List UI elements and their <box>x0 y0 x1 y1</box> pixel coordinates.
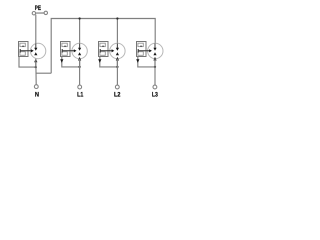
indicator mark in upper window F4 <box>140 45 142 48</box>
mechanical link arrow F2 (box to gap) <box>62 49 76 53</box>
disconnector actuation arrow F1 (points up at plug) <box>34 58 37 67</box>
disconnector actuation arrow F3 (points up at plug) <box>116 57 119 67</box>
spark gap upper electrode (down arrow) F4 <box>153 43 156 50</box>
svg-text:L3: L3 <box>152 92 158 99</box>
mechanical link arrow F4 (box to gap) <box>138 49 152 53</box>
spark gap upper electrode (down arrow) F1 <box>34 43 37 50</box>
disconnector actuation arrow F4 (points up at plug) <box>153 57 156 67</box>
surge arrester plug circle F1 <box>30 43 45 58</box>
indicator mark in upper window F2 <box>64 45 66 48</box>
wire F2 to terminal L1 <box>79 59 81 85</box>
junction disconnector wire / F2 conductor <box>78 66 80 68</box>
spark gap lower electrode (up arrow) F2 <box>78 52 81 55</box>
disconnector wire from box bottom F1 <box>19 57 36 68</box>
PE disconnect link wire <box>36 12 44 14</box>
wire bus drop to F3 <box>116 19 118 44</box>
disconnector wire from box bottom F4 <box>138 57 155 67</box>
indicator window upper F3 <box>100 43 105 46</box>
PE disconnect terminal left circle <box>32 12 35 15</box>
disconnect indicator arrow F3 (points down from box) <box>98 59 101 63</box>
svg-text:PE: PE <box>35 5 42 12</box>
indicator window lower F4 <box>138 52 143 56</box>
surge arrester plug circle F4 <box>148 43 163 58</box>
junction N bus / F2 <box>78 17 80 19</box>
N bus wire (corner right of PE terminal, across tops of L arresters) <box>51 19 155 74</box>
indicator window upper F4 <box>138 43 143 46</box>
terminal L3 circle <box>153 85 157 89</box>
disconnect indicator arrow F4 (points down from box) <box>136 59 139 63</box>
surge arrester plug circle F3 <box>110 43 125 58</box>
indicator window upper F2 <box>62 43 67 46</box>
junction disconnector wire / F4 conductor <box>154 66 156 68</box>
spark gap upper electrode (down arrow) F2 <box>78 43 81 50</box>
disconnector actuation arrow F2 (points up at plug) <box>78 57 81 67</box>
indicator mark in upper window F3 <box>102 45 104 48</box>
mechanical link arrow F3 (box to gap) <box>100 49 114 53</box>
spark gap lower electrode (up arrow) F4 <box>153 52 156 55</box>
surge arrester plug circle F2 <box>72 43 87 58</box>
junction disconnector wire / F1 conductor <box>35 66 37 68</box>
wire PE drop to arrester F1 <box>35 15 37 44</box>
status indicator box F1 <box>19 42 29 57</box>
disconnector wire from box bottom F3 <box>100 57 118 67</box>
terminal L2 circle <box>115 85 119 89</box>
wire bus drop to F2 <box>79 19 81 44</box>
svg-text:N: N <box>35 91 39 98</box>
junction N bus / F3 <box>116 17 118 19</box>
disconnector wire from box bottom F2 <box>62 57 80 67</box>
indicator window lower F2 <box>62 52 67 56</box>
disconnect indicator arrow F2 (points down from box) <box>60 59 63 63</box>
terminal L1 circle <box>78 85 82 89</box>
wire F4 to terminal L3 <box>154 59 156 85</box>
spark gap lower electrode (up arrow) F3 <box>116 52 119 55</box>
PE disconnect terminal right circle <box>44 11 47 14</box>
indicator window lower F1 <box>20 52 25 56</box>
indicator window upper F1 <box>20 43 25 46</box>
indicator window lower F3 <box>100 52 105 56</box>
mechanical link arrow F1 (box to gap) <box>20 49 34 53</box>
status indicator box F2 <box>61 42 71 57</box>
wire F3 to terminal L2 <box>116 59 118 85</box>
spark gap lower electrode (up arrow) F1 <box>34 52 37 55</box>
junction disconnector wire / F3 conductor <box>116 66 118 68</box>
status indicator box F4 <box>137 42 147 57</box>
spark gap upper electrode (down arrow) F3 <box>116 43 119 50</box>
wire N bus to F1 lower node <box>36 72 51 74</box>
wire F1 to terminal N <box>35 59 37 85</box>
status indicator box F3 <box>99 42 109 57</box>
svg-text:L1: L1 <box>77 92 84 99</box>
terminal N circle <box>34 85 38 89</box>
svg-text:L2: L2 <box>114 92 121 99</box>
indicator mark in upper window F1 <box>22 45 24 48</box>
